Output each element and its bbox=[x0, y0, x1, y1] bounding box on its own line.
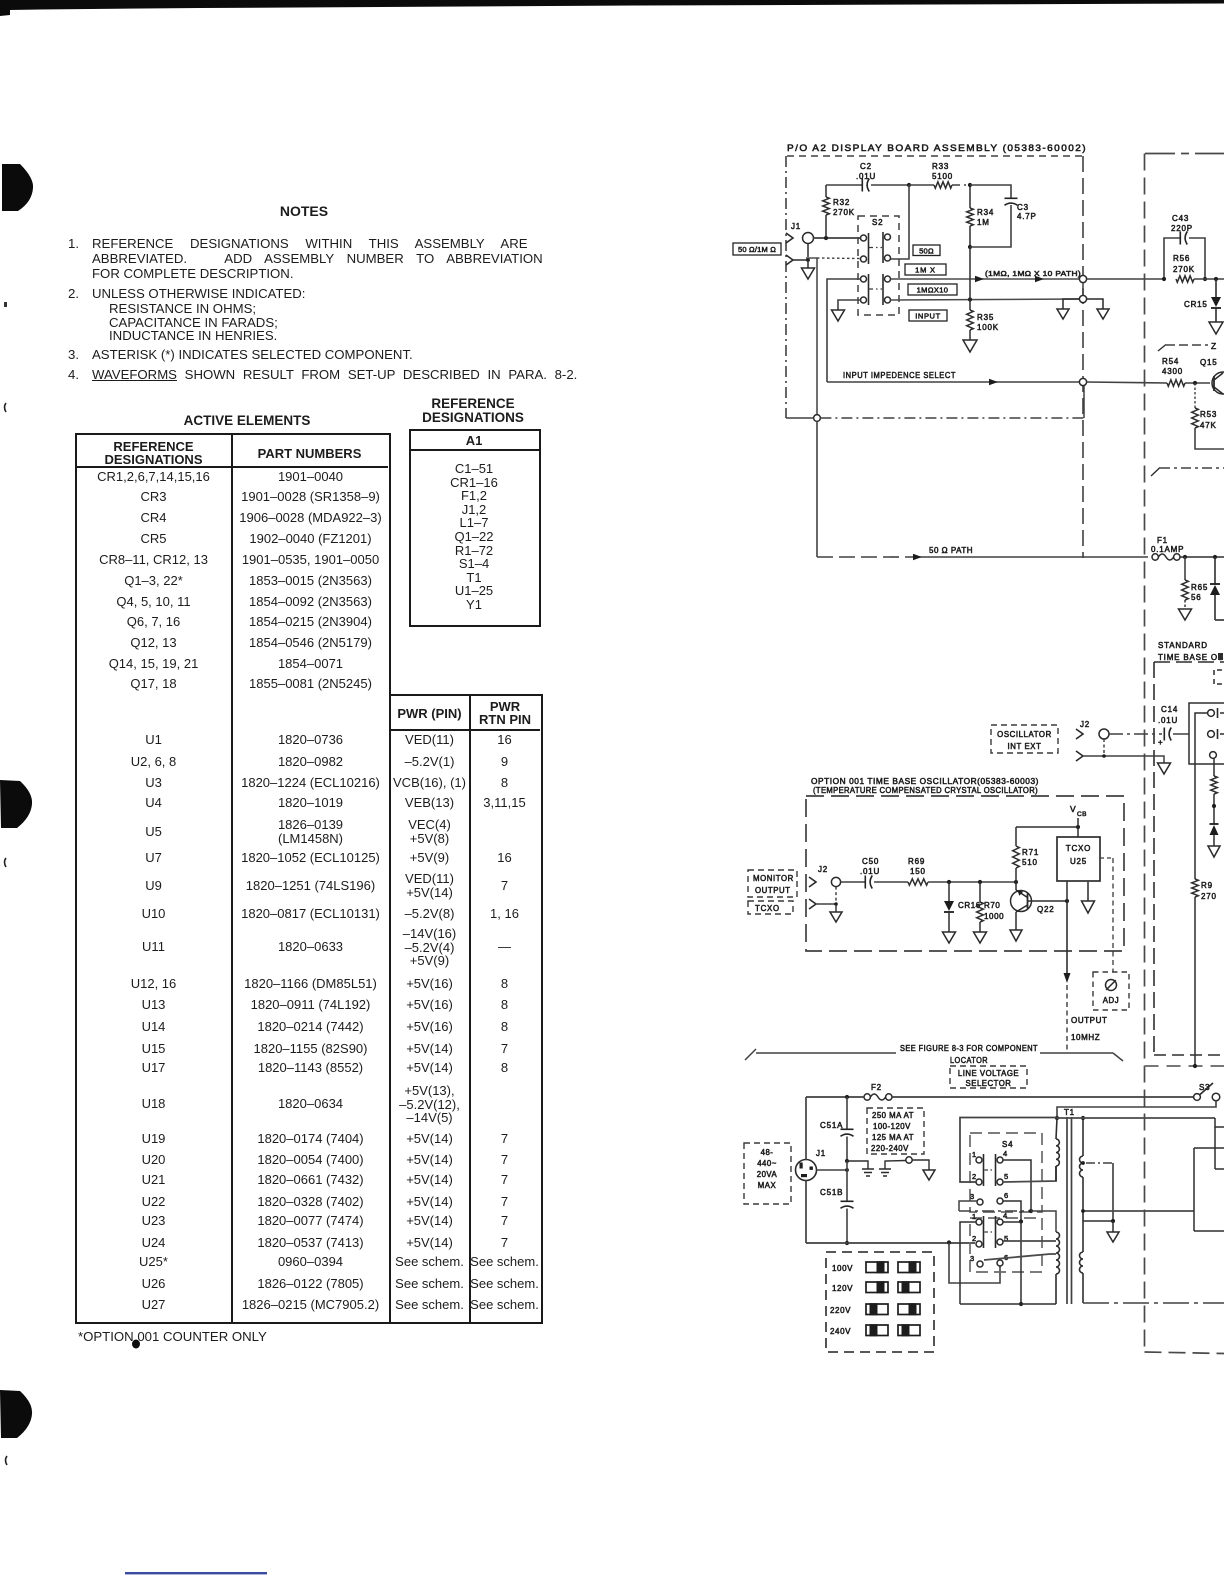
S4 upper contacts bbox=[970, 1149, 1008, 1205]
oscillator switch contacts bbox=[1208, 708, 1224, 758]
svg-text:(1MΩ, 1MΩ X 10 PATH): (1MΩ, 1MΩ X 10 PATH) bbox=[985, 269, 1081, 278]
svg-text:270K: 270K bbox=[1173, 265, 1195, 274]
svg-text:TCXO: TCXO bbox=[755, 904, 780, 913]
wire 1M path bbox=[891, 269, 1082, 282]
svg-text:R35: R35 bbox=[977, 313, 994, 322]
ground at J1 input bbox=[793, 258, 815, 279]
capacitor C3 bbox=[970, 185, 1037, 247]
svg-text:0.1AMP: 0.1AMP bbox=[1151, 545, 1184, 554]
wire J2 monitor stem bbox=[816, 887, 838, 906]
label box 50 ohm bbox=[913, 245, 940, 256]
display board border left bbox=[785, 156, 787, 418]
ground tap wire bbox=[1083, 1219, 1115, 1223]
ground at ext divider bbox=[1208, 846, 1220, 857]
svg-text:48-: 48- bbox=[761, 1148, 774, 1157]
input label 50 ohm / 1M ohm bbox=[733, 243, 781, 255]
T1 secondary winding 1 bbox=[1080, 1116, 1086, 1252]
svg-text:S4: S4 bbox=[1002, 1140, 1013, 1149]
wire contact5u bbox=[1003, 1166, 1056, 1182]
label option 001 time base oscillator bbox=[811, 777, 1039, 795]
resistor R35 bbox=[967, 299, 999, 340]
resistor R32 bbox=[823, 185, 855, 238]
svg-text:P/O A2 DISPLAY BOARD ASSEMBLY: P/O A2 DISPLAY BOARD ASSEMBLY (05383-600… bbox=[787, 143, 1087, 154]
power rating box 48-440 bbox=[744, 1143, 791, 1204]
ground at J2 ext bbox=[1158, 763, 1171, 774]
wire output 10MHz bbox=[1064, 901, 1108, 1051]
PWR sub-table bbox=[389, 694, 543, 1324]
connector J2 monitor bbox=[809, 865, 841, 909]
capacitor C51B bbox=[820, 1161, 854, 1245]
option 001 box bbox=[806, 796, 1124, 951]
svg-text:T1: T1 bbox=[1064, 1108, 1075, 1117]
switch S2 bbox=[858, 216, 899, 315]
dashed link TCXO to ADJ bbox=[1100, 858, 1113, 972]
chassis border top right bbox=[1145, 153, 1224, 155]
dashed bracket fragment bbox=[1214, 670, 1222, 684]
assembly title P/O A2 DISPLAY BOARD ASSEMBLY (05383-60002) bbox=[787, 143, 1087, 154]
svg-text:OUTPUT: OUTPUT bbox=[755, 886, 791, 895]
resistor R33 bbox=[909, 162, 970, 188]
svg-text:4: 4 bbox=[1003, 1149, 1007, 1158]
node T1 primary top bbox=[1055, 1116, 1059, 1120]
net break Z bbox=[1158, 341, 1217, 351]
label box monitor output bbox=[748, 870, 797, 897]
node C2/R33 bbox=[907, 183, 911, 187]
svg-text:TIME BASE OS: TIME BASE OS bbox=[1158, 653, 1224, 662]
svg-text:2: 2 bbox=[972, 1172, 976, 1181]
capacitor C2 bbox=[826, 162, 909, 192]
fuse F1 bbox=[1151, 536, 1224, 560]
svg-text:ADJ: ADJ bbox=[1103, 996, 1120, 1005]
svg-text:10MHZ: 10MHZ bbox=[1071, 1033, 1100, 1042]
voltage selector table box bbox=[826, 1252, 934, 1352]
wire line to F2 bbox=[806, 1095, 864, 1099]
diode CR15 bbox=[1184, 279, 1221, 322]
wire S2 row4 left to ground bbox=[832, 300, 861, 321]
ACTIVE ELEMENTS table bbox=[147, 413, 347, 428]
wire branch to contact 6 bbox=[949, 1243, 1000, 1284]
oscillator U25 TCXO bbox=[1057, 837, 1100, 881]
svg-text:U25: U25 bbox=[1070, 857, 1087, 866]
capacitor C43 bbox=[1162, 214, 1207, 281]
S2 contacts lower bbox=[861, 274, 891, 305]
transformer T1 core bbox=[1064, 1108, 1075, 1304]
wire row2 to C2 node bbox=[888, 185, 910, 259]
svg-text:270K: 270K bbox=[833, 208, 855, 217]
switch S4 lower box bbox=[970, 1218, 1042, 1272]
svg-text:SELECTOR: SELECTOR bbox=[966, 1079, 1012, 1088]
resistor R71 bbox=[1013, 827, 1039, 884]
wire ext oscillator down bbox=[1195, 713, 1208, 879]
svg-text:(TEMPERATURE COMPENSATED CRYST: (TEMPERATURE COMPENSATED CRYSTAL OSCILLA… bbox=[813, 786, 1038, 795]
svg-text:J1: J1 bbox=[791, 222, 801, 231]
svg-text:1000: 1000 bbox=[984, 912, 1004, 921]
svg-text:C14: C14 bbox=[1161, 705, 1178, 714]
svg-text:INPUT IMPEDENCE SELECT: INPUT IMPEDENCE SELECT bbox=[843, 371, 956, 380]
ground pair at board edge bbox=[1057, 283, 1109, 319]
svg-text:125 MA AT: 125 MA AT bbox=[872, 1133, 914, 1142]
transistor Q22 bbox=[1011, 882, 1055, 914]
standard time base box bbox=[1154, 662, 1224, 1055]
earth ground 2 bbox=[879, 1161, 906, 1177]
resistor R70 bbox=[977, 880, 1005, 932]
svg-text:Q15: Q15 bbox=[1200, 358, 1218, 367]
wire J2 to C14 bbox=[1109, 733, 1162, 735]
resistor R56 bbox=[1173, 254, 1224, 282]
svg-text:+: + bbox=[1158, 738, 1163, 747]
wire tap row bbox=[959, 1209, 1033, 1213]
svg-text:5100: 5100 bbox=[932, 172, 953, 181]
resistor R9 bbox=[1192, 879, 1217, 1068]
connector J1 power bbox=[796, 1149, 827, 1181]
resistor divider at ext input bbox=[1211, 758, 1218, 824]
svg-text:R9: R9 bbox=[1201, 881, 1213, 890]
rule see figure 8-3 bbox=[745, 1044, 1123, 1065]
svg-text:.01U: .01U bbox=[860, 867, 880, 876]
resistor R34 bbox=[967, 183, 994, 249]
svg-text:100-120V: 100-120V bbox=[873, 1122, 911, 1131]
center tap link bbox=[1081, 1161, 1113, 1221]
wire tap to winding2 top bbox=[1031, 1211, 1056, 1232]
svg-text:R33: R33 bbox=[932, 162, 949, 171]
S4 lower contacts bbox=[970, 1211, 1008, 1267]
switch S3 bbox=[1194, 1083, 1220, 1101]
capacitor C51A bbox=[820, 1097, 854, 1163]
svg-text:240V: 240V bbox=[830, 1327, 851, 1336]
svg-text:J2: J2 bbox=[1080, 720, 1090, 729]
svg-text:R70: R70 bbox=[984, 901, 1000, 910]
svg-text:OSCILLATOR: OSCILLATOR bbox=[997, 730, 1052, 739]
wire 50 ohm path bbox=[817, 546, 1148, 560]
svg-text:C43: C43 bbox=[1172, 214, 1189, 223]
svg-text:250 MA AT: 250 MA AT bbox=[872, 1111, 914, 1120]
ground below R35 bbox=[963, 340, 977, 352]
wire S3 return bbox=[1057, 1101, 1216, 1118]
chassis border vertical bbox=[1144, 154, 1146, 1353]
svg-text:3: 3 bbox=[970, 1192, 974, 1201]
wire contact1l bbox=[960, 1222, 976, 1304]
wire 1M path to C43 stage bbox=[1087, 278, 1164, 280]
diode CR at 50 ohm path bbox=[1210, 557, 1224, 620]
net break lower bbox=[1151, 468, 1224, 477]
wire J2 stem bbox=[1083, 739, 1104, 756]
neutral rail bbox=[806, 1240, 975, 1244]
wire J1 power top bbox=[805, 1097, 807, 1160]
node at border corner bbox=[786, 415, 820, 422]
ground at selector bbox=[923, 1170, 935, 1180]
svg-text:20VA: 20VA bbox=[757, 1170, 778, 1179]
right bracket upper bbox=[1215, 1118, 1224, 1169]
wire contact3l tap bbox=[984, 1254, 1056, 1260]
earth ground 1 bbox=[847, 1161, 874, 1176]
svg-text:6: 6 bbox=[1004, 1191, 1008, 1200]
display board border top bbox=[787, 155, 1082, 157]
svg-text:1M: 1M bbox=[977, 218, 990, 227]
current rating box bbox=[867, 1108, 924, 1154]
resistor R69 bbox=[908, 857, 1016, 885]
svg-text:1M X: 1M X bbox=[915, 266, 936, 275]
wire J2 lower to ground bbox=[1102, 754, 1164, 763]
svg-text:C3: C3 bbox=[1017, 203, 1029, 212]
ground below R65 bbox=[1179, 609, 1192, 620]
svg-text:220-240V: 220-240V bbox=[871, 1144, 909, 1153]
node 1M path at board edge bbox=[1079, 275, 1086, 282]
svg-text:1: 1 bbox=[972, 1150, 976, 1159]
label box 1M ohm X10 bbox=[908, 284, 957, 295]
svg-text:1MΩX10: 1MΩX10 bbox=[917, 286, 949, 295]
svg-text:100V: 100V bbox=[832, 1264, 853, 1273]
resistor R54 bbox=[1162, 357, 1210, 386]
T1 primary winding 1 bbox=[1056, 1118, 1059, 1181]
row 220V bbox=[830, 1303, 920, 1315]
svg-text:.01U: .01U bbox=[856, 172, 876, 181]
svg-text:510: 510 bbox=[1022, 858, 1038, 867]
wire J1 to S2 bbox=[813, 236, 863, 240]
right bracket lower bbox=[1194, 1148, 1224, 1231]
svg-text:440~: 440~ bbox=[757, 1159, 777, 1168]
diode CR16 bbox=[944, 880, 981, 932]
label box oscillator int ext bbox=[991, 725, 1058, 753]
primary bottom rail bbox=[960, 1303, 1056, 1305]
svg-text:CB: CB bbox=[1077, 811, 1087, 818]
node impedence select at board edge bbox=[1079, 378, 1167, 385]
label box tcxo bbox=[748, 901, 793, 914]
row 100V bbox=[832, 1261, 920, 1273]
svg-text:J1: J1 bbox=[816, 1149, 826, 1158]
wire S2 common vertical bbox=[816, 258, 818, 414]
T1 secondary winding 2 bbox=[1080, 1252, 1084, 1303]
S2 contacts upper bbox=[861, 232, 891, 264]
svg-text:3: 3 bbox=[970, 1254, 974, 1263]
svg-text:R53: R53 bbox=[1200, 410, 1217, 419]
display board border right bbox=[1082, 156, 1084, 558]
T1 primary winding 2 bbox=[1056, 1232, 1060, 1304]
wire Q22 base to TCXO bbox=[1028, 899, 1070, 903]
svg-text:C2: C2 bbox=[860, 162, 872, 171]
ground at J2 monitor bbox=[830, 904, 842, 922]
half wave rail bbox=[1081, 1209, 1194, 1213]
switch S4 upper box bbox=[970, 1133, 1042, 1212]
adjust pot box ADJ bbox=[1093, 972, 1129, 1010]
svg-text:TCXO: TCXO bbox=[1066, 844, 1091, 853]
svg-text:F1: F1 bbox=[1157, 536, 1168, 545]
wire 50 ohm path vertical bbox=[816, 421, 818, 557]
ground below Q22 bbox=[1010, 912, 1022, 941]
transistor Q15 bbox=[1200, 358, 1224, 394]
svg-text:56: 56 bbox=[1191, 593, 1202, 602]
wire contact4l bbox=[1003, 1222, 1023, 1307]
svg-text:R32: R32 bbox=[833, 198, 850, 207]
capacitor C14 bbox=[1158, 705, 1189, 747]
svg-text:V: V bbox=[1070, 804, 1076, 814]
svg-text:INT EXT: INT EXT bbox=[1008, 742, 1042, 751]
svg-text:R54: R54 bbox=[1162, 357, 1179, 366]
capacitor C50 bbox=[841, 857, 908, 889]
wire contact2u loop bbox=[960, 1118, 1057, 1183]
node diode branch bbox=[1213, 555, 1217, 559]
svg-text:J2: J2 bbox=[818, 865, 828, 874]
connector J1 input bbox=[786, 222, 814, 265]
svg-text:MONITOR: MONITOR bbox=[753, 874, 794, 883]
wire contact3u bbox=[959, 1201, 977, 1211]
svg-text:2: 2 bbox=[972, 1234, 976, 1243]
svg-text:220V: 220V bbox=[830, 1306, 851, 1315]
wire R34 to R35 bbox=[969, 247, 971, 299]
svg-text:.01U: .01U bbox=[1158, 716, 1178, 725]
svg-text:R34: R34 bbox=[977, 208, 994, 217]
svg-text:R65: R65 bbox=[1191, 583, 1208, 592]
wire F2 to S3 bbox=[892, 1096, 1194, 1098]
svg-text:C51B: C51B bbox=[820, 1188, 843, 1197]
svg-text:270: 270 bbox=[1201, 892, 1217, 901]
resistor R65 bbox=[1182, 557, 1208, 609]
wire S2 row4 to R35 node bbox=[891, 297, 1080, 301]
oscillator switch box bbox=[1189, 703, 1224, 764]
wire J1 lower to S2 row2 bbox=[806, 257, 861, 260]
svg-text:4300: 4300 bbox=[1162, 367, 1183, 376]
node after F1 bbox=[1183, 555, 1187, 559]
svg-text:LINE VOLTAGE: LINE VOLTAGE bbox=[958, 1069, 1019, 1078]
svg-text:50 Ω PATH: 50 Ω PATH bbox=[929, 546, 973, 555]
wire contact5l tap bbox=[1003, 1240, 1056, 1242]
wire exiting board bottom bbox=[820, 386, 1084, 418]
chassis border bottom right bbox=[1145, 1352, 1224, 1354]
svg-text:R69: R69 bbox=[908, 857, 925, 866]
svg-text:Z: Z bbox=[1211, 341, 1217, 351]
svg-text:50Ω: 50Ω bbox=[919, 247, 934, 256]
svg-text:SEE FIGURE 8-3 FOR COMPONENT: SEE FIGURE 8-3 FOR COMPONENT bbox=[900, 1044, 1038, 1053]
svg-text:50 Ω/1M Ω: 50 Ω/1M Ω bbox=[738, 245, 776, 254]
ground at TCXO bbox=[1082, 881, 1095, 913]
svg-text:4.7P: 4.7P bbox=[1017, 212, 1037, 221]
svg-text:CR15: CR15 bbox=[1184, 300, 1208, 309]
svg-text:C50: C50 bbox=[862, 857, 879, 866]
secondary top wire bbox=[1057, 1117, 1215, 1119]
row 240V bbox=[830, 1324, 920, 1336]
ground below CR16 bbox=[943, 932, 956, 943]
wire J1 power bottom bbox=[805, 1181, 807, 1244]
svg-text:R71: R71 bbox=[1022, 848, 1039, 857]
label standard time base oscillator bbox=[1158, 641, 1224, 662]
svg-text:120V: 120V bbox=[832, 1284, 853, 1293]
connector J2 ext bbox=[1076, 720, 1109, 761]
svg-text:220P: 220P bbox=[1171, 224, 1193, 233]
svg-text:C51A: C51A bbox=[820, 1121, 843, 1130]
svg-text:STANDARD: STANDARD bbox=[1158, 641, 1208, 650]
row 120V bbox=[832, 1281, 920, 1293]
svg-text:LOCATOR: LOCATOR bbox=[950, 1056, 988, 1065]
Vcb rail bbox=[1016, 804, 1087, 837]
ground below center tap bbox=[1107, 1221, 1119, 1242]
wire TCXO output lead bbox=[1066, 881, 1068, 901]
svg-text:OPTION 001 TIME BASE OSCILLATO: OPTION 001 TIME BASE OSCILLATOR(05383-60… bbox=[811, 777, 1039, 786]
svg-text:4: 4 bbox=[1003, 1211, 1007, 1220]
svg-text:F2: F2 bbox=[871, 1083, 882, 1092]
wire J1 mid bbox=[817, 1168, 849, 1172]
svg-text:OUTPUT: OUTPUT bbox=[1071, 1016, 1108, 1025]
svg-text:100K: 100K bbox=[977, 323, 999, 332]
wire input impedence select bbox=[827, 371, 1079, 385]
svg-text:MAX: MAX bbox=[758, 1181, 777, 1190]
wire contact6u bbox=[1003, 1201, 1023, 1224]
svg-text:R56: R56 bbox=[1173, 254, 1190, 263]
svg-text:150: 150 bbox=[910, 867, 926, 876]
ground below R70 bbox=[974, 932, 987, 943]
chassis branch right bbox=[1145, 1065, 1224, 1067]
label box 1M X bbox=[905, 264, 946, 275]
wire contact4u bbox=[1003, 1160, 1031, 1211]
selector common bbox=[906, 1157, 929, 1170]
svg-text:5: 5 bbox=[1004, 1172, 1008, 1181]
label box line voltage selector bbox=[950, 1066, 1027, 1088]
secondary bottom rail bbox=[1083, 1302, 1224, 1304]
fuse F2 bbox=[864, 1083, 892, 1100]
svg-text:1: 1 bbox=[972, 1212, 976, 1221]
svg-text:S2: S2 bbox=[872, 218, 883, 227]
label box INPUT bbox=[909, 310, 947, 321]
svg-text:Q22: Q22 bbox=[1037, 905, 1055, 914]
resistor R53 bbox=[1192, 383, 1224, 449]
diode at ext input bbox=[1210, 824, 1219, 846]
ground below CR15 bbox=[1209, 322, 1223, 334]
svg-text:47K: 47K bbox=[1200, 421, 1217, 430]
REFERENCE DESIGNATIONS box bbox=[398, 397, 548, 425]
svg-text:INPUT: INPUT bbox=[915, 312, 941, 321]
wire S2 row3 left bbox=[827, 279, 861, 382]
